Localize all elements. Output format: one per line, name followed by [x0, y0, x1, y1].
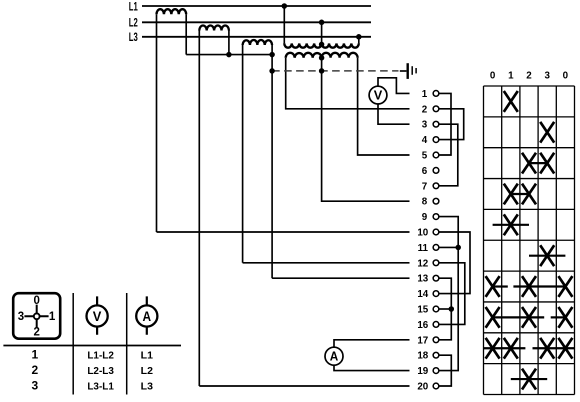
wire L1 CT to terminal 10 — [157, 231, 410, 233]
svg-text:2: 2 — [526, 70, 532, 81]
svg-text:L3-L1: L3-L1 — [87, 381, 114, 392]
svg-text:6: 6 — [422, 166, 428, 177]
position centre circle — [34, 313, 40, 319]
terminal 11 contact circle — [433, 245, 439, 251]
bridge row 15-16 right — [551, 316, 566, 318]
wire earth stub — [400, 70, 407, 72]
terminal 7 contact circle — [433, 183, 439, 189]
terminal 2 contact circle — [433, 106, 439, 112]
svg-text:7: 7 — [422, 181, 428, 192]
terminal 20 contact circle — [433, 383, 439, 389]
contact mark row 13-14 pos 2 — [522, 276, 536, 297]
bridge row 13-14 right — [513, 285, 565, 287]
svg-text:L2-L3: L2-L3 — [87, 366, 114, 377]
svg-text:L1: L1 — [141, 350, 154, 361]
terminal 16 contact circle — [433, 322, 439, 328]
wire voltmeter bottom to terminal 3 — [378, 104, 410, 124]
contact mark row 17-18 pos 0 — [486, 338, 500, 359]
wire link terminals 12-16 — [439, 263, 465, 325]
junction on L3 — [356, 34, 362, 40]
svg-text:3: 3 — [31, 378, 38, 392]
wire link terminals 1-5 — [439, 93, 451, 155]
wire ammeter bottom to terminal 19 — [334, 365, 410, 370]
bridge row 5-6 — [529, 162, 547, 164]
svg-text:1: 1 — [31, 347, 38, 361]
terminal 8 contact circle — [433, 198, 439, 204]
CT T2 on L2 (coil) — [199, 26, 229, 31]
svg-text:V: V — [374, 89, 383, 103]
svg-text:3: 3 — [422, 120, 428, 131]
VT secondary winding right half — [322, 53, 358, 58]
wire link terminals 2-4 — [439, 109, 464, 140]
svg-text:19: 19 — [417, 366, 428, 377]
svg-text:A: A — [330, 350, 339, 364]
contact mark row 17-18 pos 0r — [558, 338, 572, 359]
wire phase L1 — [142, 5, 371, 7]
wire VT secondary right to terminal 5 — [358, 58, 410, 155]
svg-text:0: 0 — [563, 70, 569, 81]
terminal 6 contact circle — [433, 168, 439, 174]
bridge row 13-14 left — [493, 285, 508, 287]
svg-text:1: 1 — [508, 70, 514, 81]
junction link at terminal 15 — [449, 306, 455, 312]
contact mark row 1-2 pos 1 — [504, 91, 518, 112]
junction VT secondary centre tap — [319, 55, 325, 61]
terminal 10 contact circle — [433, 229, 439, 235]
svg-text:18: 18 — [417, 351, 428, 362]
wire link terminals 18-20 — [439, 355, 451, 386]
contact table grid — [484, 86, 575, 395]
switch position symbol frame — [13, 293, 60, 339]
svg-text:5: 5 — [422, 151, 428, 162]
VT primary winding right half (L2-L3) — [322, 43, 359, 47]
svg-text:L3: L3 — [129, 30, 138, 44]
svg-text:L1-L2: L1-L2 — [87, 350, 114, 361]
terminal 3 contact circle — [433, 121, 439, 127]
junction on L2 — [319, 20, 325, 26]
junction link at terminal 11 — [455, 245, 461, 251]
svg-text:V: V — [93, 308, 102, 324]
wire link terminals 3-7 — [439, 124, 458, 186]
wire terminal 11 tap — [439, 246, 458, 248]
wire CT T2 return to terminal 20 — [199, 385, 409, 387]
wire L2 drop to VT primary centre — [321, 22, 323, 44]
terminal 13 contact circle — [433, 275, 439, 281]
junction earth link x VT centre tap — [319, 68, 325, 74]
wire L1 drop to VT primary — [283, 6, 285, 43]
bridge row 17-18 left — [484, 347, 526, 349]
terminal 1 contact circle — [433, 91, 439, 97]
VT primary winding left half (L1-L2) — [284, 43, 321, 47]
svg-text:L1: L1 — [129, 0, 138, 13]
contact mark row 15-16 pos 0r — [558, 307, 572, 328]
terminal 14 contact circle — [433, 291, 439, 297]
bridge row 11-12 — [529, 255, 565, 257]
wire CT T2 right leg down to common bus — [228, 31, 230, 55]
junction bus x CT common leg — [269, 52, 275, 58]
contact mark row 17-18 pos 3 — [540, 338, 554, 359]
svg-text:2: 2 — [33, 327, 39, 339]
wire link terminals 10-14 — [439, 232, 470, 294]
wire CT common to terminal 13 — [272, 277, 409, 279]
legend voltmeter symbol — [96, 296, 98, 334]
contact mark row 13-14 pos 0r — [558, 276, 572, 297]
junction on L1 — [282, 3, 288, 9]
wire earth link (dashed) — [272, 70, 398, 72]
svg-text:11: 11 — [418, 243, 429, 254]
terminal 5 contact circle — [433, 152, 439, 158]
svg-text:3: 3 — [18, 311, 24, 323]
ammeter A — [325, 347, 343, 365]
contact mark row 7-8 pos 1 — [504, 184, 518, 205]
contact mark row 5-6 pos 2 — [522, 153, 536, 174]
svg-text:14: 14 — [417, 289, 428, 300]
svg-text:3: 3 — [544, 70, 550, 81]
bridge row 9-10 — [493, 224, 529, 226]
contact mark row 3-4 pos 3 — [540, 122, 554, 143]
terminal 4 contact circle — [433, 137, 439, 143]
wire terminal 15 tap — [439, 308, 451, 310]
wire CT T1 right leg (S2) down to common bus — [185, 14, 187, 54]
svg-text:L2: L2 — [129, 16, 138, 30]
bridge row 15-16 left — [493, 316, 545, 318]
wire voltmeter top to terminal 1 — [378, 78, 410, 94]
svg-text:2: 2 — [422, 104, 428, 115]
wire CT T1 left leg (S1) down to terminal 10 — [156, 14, 158, 232]
svg-text:9: 9 — [422, 212, 428, 223]
VT secondary winding left half — [286, 53, 322, 58]
wire VT secondary centre to terminal 8 — [322, 58, 410, 201]
terminal 9 contact circle — [433, 214, 439, 220]
contact mark row 13-14 pos 0 — [486, 276, 500, 297]
wire VT secondary left to terminal 2 — [286, 58, 410, 109]
terminal 17 contact circle — [433, 337, 439, 343]
CT T1 on L1 (coil) — [157, 9, 187, 14]
wire CT T2 left leg down to terminal 20 row — [198, 31, 200, 387]
wire link terminals 13-17 — [439, 278, 451, 340]
position cross arms — [24, 305, 48, 328]
wire CT secondary common bus — [186, 54, 272, 56]
bridge row 17-18 right — [533, 347, 575, 349]
earth symbol — [407, 63, 409, 79]
legend header rule — [3, 345, 181, 347]
wire ammeter top to terminal 17 — [334, 340, 410, 347]
svg-text:8: 8 — [422, 197, 428, 208]
terminal 15 contact circle — [433, 306, 439, 312]
svg-text:2: 2 — [31, 363, 38, 377]
wire CT T3 to terminal 12 — [243, 262, 410, 264]
junction earth link x CT common — [269, 68, 275, 74]
wire CT T3 left leg down to terminal 12 row — [242, 45, 244, 263]
svg-text:L2: L2 — [141, 366, 154, 377]
wire phase L3 — [142, 36, 371, 38]
contact mark row 15-16 pos 0 — [486, 307, 500, 328]
terminal 19 contact circle — [433, 368, 439, 374]
svg-text:0: 0 — [490, 70, 496, 81]
contact mark row 11-12 pos 3 — [540, 245, 554, 266]
svg-text:15: 15 — [417, 305, 428, 316]
contact mark row 9-10 pos 1 — [504, 214, 518, 235]
wire L3 drop to VT primary — [358, 37, 360, 44]
svg-text:L3: L3 — [141, 381, 154, 392]
wire CT common leg down to terminal 13 row — [271, 45, 273, 278]
svg-text:10: 10 — [417, 228, 428, 239]
legend ammeter symbol — [146, 296, 148, 334]
contact mark row 15-16 pos 2 — [522, 307, 536, 328]
svg-text:1: 1 — [49, 311, 56, 323]
svg-text:20: 20 — [417, 382, 428, 393]
contact mark row 5-6 pos 3 — [540, 153, 554, 174]
junction VT primary centre — [319, 42, 325, 48]
CT T3 on L3 (coil) — [243, 40, 273, 45]
svg-text:A: A — [143, 308, 152, 324]
contact mark row 17-18 pos 1 — [504, 338, 518, 359]
wire link terminals 9-19 — [439, 217, 458, 371]
svg-text:4: 4 — [422, 135, 428, 146]
svg-text:12: 12 — [417, 258, 428, 269]
voltmeter V — [369, 86, 387, 104]
svg-text:13: 13 — [417, 274, 428, 285]
wire phase L2 — [142, 21, 371, 23]
legend column separator 2 — [126, 293, 128, 395]
bridge row 7-8 — [511, 193, 529, 195]
junction bus x CT T2 leg — [226, 52, 232, 58]
contact mark row 19-20 pos 2 — [522, 369, 536, 390]
legend column separator 1 — [72, 293, 74, 395]
svg-text:1: 1 — [422, 89, 428, 100]
contact mark row 7-8 pos 2 — [522, 184, 536, 205]
svg-text:16: 16 — [417, 320, 428, 331]
terminal 18 contact circle — [433, 352, 439, 358]
svg-text:17: 17 — [417, 335, 428, 346]
terminal 12 contact circle — [433, 260, 439, 266]
bridge row 19-20 — [511, 378, 547, 380]
